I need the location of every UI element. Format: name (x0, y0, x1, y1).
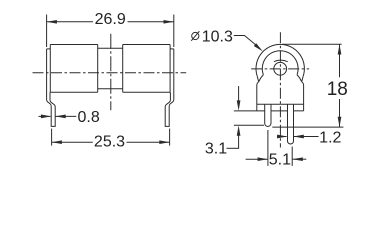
dimension 26.9 extension lines (46, 15, 48, 48)
inner ring arc (262, 51, 298, 75)
body right side (end view) (302, 82, 304, 105)
end view vertical centerline (279, 32, 281, 147)
18 bottom arrow (338, 117, 342, 127)
dia symbol (192, 32, 199, 39)
skirt left edge (256, 104, 258, 111)
26.9 right arrow (164, 20, 174, 24)
arrowheads (41, 20, 341, 161)
end view horizontal centerline (251, 68, 309, 70)
25.3 right arrow (159, 140, 169, 144)
clip band top edge (98, 47, 123, 49)
left ear tab (clip end) (257, 75, 263, 82)
svg-text:18: 18 (327, 79, 348, 100)
body left side (end view) (257, 82, 259, 105)
svg-text:10.3: 10.3 (202, 28, 233, 45)
0.8 left arrow (41, 115, 51, 119)
rivet hole (274, 62, 287, 75)
right end cap top (170, 48, 174, 50)
dimple arc above hole (274, 60, 288, 62)
dimension 18 line (339, 44, 341, 77)
1.2 right arrow (294, 135, 304, 139)
25.3 left arrow (52, 140, 62, 144)
body bottom edge left section (50, 91, 97, 93)
svg-text:5.1: 5.1 (269, 152, 291, 169)
5.1 left arrow (258, 157, 268, 161)
body top edge left section (50, 44, 97, 46)
dia 10.3 leader arrow (254, 43, 263, 51)
skirt right edge (303, 104, 305, 111)
dimension 5.1 tails (246, 158, 268, 160)
dimension 25.3 line (52, 141, 93, 143)
band right edge (122, 45, 124, 93)
3.1 up arrow (237, 126, 241, 136)
dimension 0.8 lines (39, 115, 51, 117)
body right edge (169, 45, 171, 93)
dimension 1.2 lines (277, 136, 287, 138)
body top edge right section (123, 44, 170, 46)
body bottom edge right section (123, 91, 170, 93)
dia 10.3 leader line (234, 36, 258, 47)
right lead (bent pin) (165, 49, 174, 127)
band left edge (97, 45, 99, 93)
5.1 right arrow (292, 157, 303, 161)
horizontal centerline (side view axis) (33, 72, 187, 74)
left mounting pin (short) (265, 104, 271, 126)
vertical centerline (clip band axis) (110, 34, 112, 110)
3.1 down arrow (237, 100, 241, 110)
body left edge (49, 45, 51, 93)
left end cap top (47, 48, 51, 50)
dimension 5.1 extension lines (267, 130, 269, 166)
dimension 25.3 extension lines (51, 129, 53, 146)
svg-text:26.9: 26.9 (95, 11, 126, 28)
dimension 18 extension lines (282, 43, 342, 45)
26.9 left arrow (47, 20, 57, 24)
dimension 26.9 line (47, 21, 93, 23)
right mounting pin (long) (288, 104, 294, 144)
svg-text:0.8: 0.8 (77, 109, 99, 126)
clip band bottom edge (98, 88, 123, 90)
svg-text:25.3: 25.3 (94, 133, 125, 150)
fuse clip end view: outer ring arc (256, 44, 304, 76)
svg-text:3.1: 3.1 (205, 141, 227, 158)
3.1 lower extension line (234, 124, 264, 126)
flange bottom + 3.1 upper extension (234, 110, 265, 112)
dimension texts (77, 11, 347, 169)
svg-text:1.2: 1.2 (319, 129, 341, 146)
18 top arrow (338, 44, 342, 54)
left lead (bent pin) (47, 49, 56, 127)
fuse holder body (side view) (47, 45, 174, 93)
right ear tab (clip end) (297, 75, 303, 82)
dimension 3.1 arrow lines + leader (238, 86, 240, 102)
1.2 left arrow (277, 135, 287, 139)
0.8 right arrow (55, 115, 65, 119)
base bottom line (257, 103, 304, 105)
